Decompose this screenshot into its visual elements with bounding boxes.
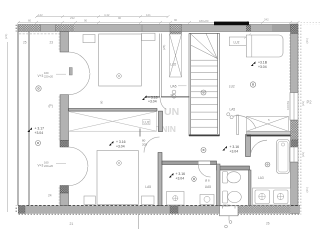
BM bench right: [142, 196, 155, 205]
BM bench left: [84, 196, 95, 205]
svg-text:+3.04: +3.04: [116, 144, 125, 148]
top-right corner hatched block: [291, 24, 299, 34]
interior wall W1 upper (left rooms divider, top segment): [59, 32, 69, 53]
door frame tick above BM bed: [139, 129, 141, 137]
top-right bedroom south wall: [247, 131, 291, 135]
stair mark circle: [201, 90, 206, 95]
svg-text:121: 121: [146, 13, 151, 17]
TM level texts: [148, 95, 158, 103]
svg-text:Ø 8: Ø 8: [205, 179, 210, 183]
svg-text:(2x): (2x): [301, 101, 305, 106]
small bath mark circle: [192, 177, 197, 182]
vanity counter: [253, 188, 291, 205]
svg-text:LU2: LU2: [229, 85, 235, 89]
dashed sill line below top band left: [19, 33, 60, 35]
svg-text:25: 25: [23, 41, 27, 45]
svg-text:24: 24: [48, 194, 52, 198]
svg-text:90: 90: [84, 19, 88, 23]
BM bed mark circle: [117, 161, 122, 166]
top-right party dots row: [299, 23, 320, 25]
interior wall W1 lower segment: [48, 186, 69, 206]
TR room mark circle: [250, 82, 255, 87]
svg-text:LA5: LA5: [230, 108, 236, 112]
BM bed: [97, 151, 138, 205]
svg-text:(21): (21): [305, 38, 309, 43]
top dimension line A: [35, 15, 170, 18]
WC toilet 1: [223, 172, 241, 184]
svg-text:26: 26: [266, 222, 270, 226]
small bath level texts: [176, 172, 186, 180]
svg-text:+3.1B: +3.1B: [258, 61, 268, 65]
left margin dimension line: [7, 42, 9, 212]
svg-text:LU2: LU2: [144, 121, 150, 125]
BM level texts: [116, 140, 126, 148]
BL level arrow: [28, 128, 32, 132]
svg-text:LA3: LA3: [258, 176, 264, 180]
top-left party dots: [15, 25, 18, 32]
bedroom stub wall y96.8: [145, 96, 160, 98]
WC toilet 2: [223, 191, 242, 203]
right party-wall dotted strip: [299, 25, 302, 215]
svg-text:90: 90: [118, 16, 122, 20]
door mark circles: [227, 113, 234, 119]
svg-text:UA5: UA5: [205, 185, 211, 189]
staircase outline: [189, 33, 220, 136]
svg-text:23: 23: [50, 41, 54, 45]
svg-text:+3.04: +3.04: [258, 65, 267, 69]
bath north wall D1: [162, 161, 217, 165]
small bath level arrow: [169, 173, 173, 177]
svg-text:(25): (25): [162, 45, 166, 50]
svg-text:(21): (21): [4, 34, 8, 39]
svg-text:LU2: LU2: [234, 40, 240, 44]
svg-text:+3.04: +3.04: [148, 100, 157, 104]
double door D1 lower leaf arc: [69, 73, 91, 95]
svg-text:180+80: 180+80: [199, 19, 209, 23]
top dimension line B: [17, 21, 300, 24]
TR level texts: [258, 61, 268, 70]
right wall insulation comb ticks: [289, 35, 291, 89]
double door D1 leaf block: [69, 68, 72, 76]
black canopy bar above band: [214, 22, 249, 26]
double door D1 upper leaf arc: [69, 52, 90, 73]
marks below threshold: [225, 216, 232, 228]
BM level arrow: [109, 141, 113, 145]
svg-text:232: 232: [70, 16, 75, 20]
svg-text:+3.04: +3.04: [176, 176, 185, 180]
bath door arc: [198, 165, 210, 177]
svg-text:90: 90: [174, 18, 178, 22]
right margin rotated texts: [286, 38, 309, 192]
BL room mark circle: [36, 141, 41, 146]
bedroom2 door arc: [144, 137, 160, 153]
vanity sink circles: [259, 193, 284, 199]
svg-text:V+3: V+3: [38, 164, 44, 168]
door size label 80/205: [142, 139, 147, 147]
svg-text:205: 205: [142, 143, 147, 147]
WC/vanity divider wall G: [249, 170, 252, 206]
stacked circle marks below closet: [172, 90, 176, 98]
svg-text:220+20: 220+20: [44, 75, 54, 79]
small bath labels UA5: [205, 179, 211, 189]
svg-text:(2x): (2x): [301, 152, 305, 157]
bottom-left outside dots: [15, 206, 18, 214]
WC north wall D2: [217, 166, 250, 170]
bottom exterior wall band: [18, 206, 300, 214]
bottom party dots row: [18, 214, 300, 216]
hall top wall y96.8: [161, 96, 190, 98]
WC level texts: [230, 145, 240, 153]
svg-text:142: 142: [38, 13, 43, 17]
bath door gap mask: [199, 161, 211, 164]
small bath washbasin: [200, 195, 214, 205]
top exterior wall band: [18, 24, 291, 34]
WC west wall E: [217, 164, 221, 206]
bottom tick below bed wall: [138, 214, 140, 229]
svg-text:(21): (21): [305, 187, 309, 192]
room label LU2 boxed: [143, 120, 150, 125]
WC level arrow: [223, 146, 227, 150]
wall B lower vertical: [158, 153, 162, 206]
svg-text:+3.04: +3.04: [35, 131, 44, 135]
svg-text:160: 160: [44, 71, 49, 75]
TM nightstand left: [83, 35, 95, 43]
svg-text:LU2: LU2: [170, 63, 176, 67]
right exterior wall: [291, 34, 299, 215]
stair straight treads: [191, 60, 218, 127]
TL room window annotation: [38, 71, 67, 79]
big bath mark circle: [265, 162, 270, 167]
hall mark circle: [201, 148, 206, 153]
svg-text:90: 90: [100, 100, 104, 104]
right wall window 1: [290, 93, 298, 121]
hall door arc: [160, 98, 166, 110]
dresser X rect in TR bedroom: [247, 117, 289, 132]
top dimension micro texts: [28, 13, 269, 23]
svg-text:242: 242: [264, 18, 269, 22]
corridor void X rect: [69, 112, 157, 132]
right wall window 2: [290, 147, 298, 162]
TR level arrow: [251, 62, 255, 66]
bathtub: [277, 140, 290, 174]
BL window annotation: [38, 161, 67, 169]
svg-text:(P): (P): [49, 104, 53, 108]
stair bottom edge bar: [189, 134, 220, 136]
big bath west wall F: [246, 135, 251, 157]
bottom threshold white box: [220, 206, 239, 216]
TM bed: [99, 34, 142, 86]
svg-text:UA5: UA5: [170, 84, 176, 88]
interior wall W1 middle segment: [59, 95, 69, 147]
big bath door arc: [250, 140, 267, 157]
svg-text:UN: UN: [164, 106, 179, 118]
BL level texts: [35, 127, 45, 135]
svg-text:60: 60: [28, 19, 32, 23]
stair winder treads: [191, 34, 218, 59]
TL room mark circle: [36, 86, 41, 91]
TM level arrow: [142, 96, 146, 100]
bedroom TR door arc: [233, 116, 256, 129]
TM bed mark circle: [117, 74, 122, 79]
corridor wall B vertical upper: [159, 111, 163, 131]
svg-text:+3.04: +3.04: [230, 149, 239, 153]
corridor wall A horizontal: [69, 109, 158, 112]
TM nightstand right: [142, 33, 156, 40]
closet duct X rect: [170, 34, 182, 77]
svg-text:100/83: 100/83: [286, 100, 290, 110]
svg-text:LA5: LA5: [145, 185, 151, 189]
svg-text:P2: P2: [307, 100, 313, 105]
TR bed horizontal: [246, 35, 283, 57]
closet wall x160 vertical thin: [160, 34, 162, 97]
bedroom TR door leaf: [237, 115, 239, 135]
left exterior wall (unfilled): [17, 25, 29, 206]
svg-text:4.42: 4.42: [104, 13, 110, 17]
double door D2 upper leaf arc: [69, 147, 89, 167]
svg-text:Ø120: Ø120: [223, 203, 231, 207]
svg-text:220+20: 220+20: [44, 164, 54, 168]
svg-text:21: 21: [70, 222, 74, 226]
svg-text:160: 160: [44, 161, 49, 165]
svg-text:V+3: V+3: [38, 74, 44, 78]
TR nightstand: [229, 37, 246, 46]
shower tray: [167, 192, 185, 206]
watermark: [156, 106, 179, 134]
double door D2 lower leaf arc: [69, 167, 88, 186]
